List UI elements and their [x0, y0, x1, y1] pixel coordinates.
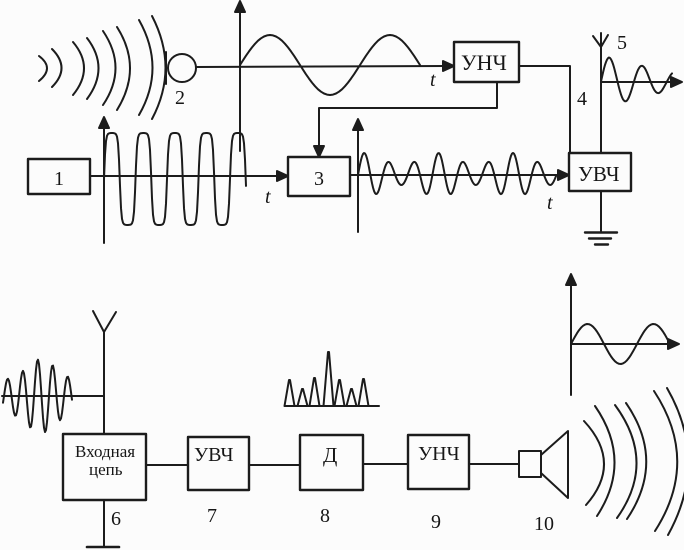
svg-text:7: 7	[207, 505, 217, 527]
arrowhead into modulator 3	[314, 146, 324, 157]
wire UNCh to speaker	[469, 463, 519, 465]
svg-text:t: t	[265, 186, 271, 208]
carrier axis arrowhead	[99, 117, 109, 128]
speaker driver square 10	[519, 451, 541, 477]
received AM waveform	[3, 360, 72, 432]
svg-text:УВЧ: УВЧ	[194, 444, 234, 466]
svg-text:3: 3	[314, 168, 324, 190]
receiver antenna mast	[103, 332, 105, 433]
radiated wave axis	[601, 81, 675, 83]
svg-text:УНЧ: УНЧ	[461, 50, 507, 75]
wire microphone to UNCh	[196, 66, 446, 67]
svg-text:t: t	[430, 69, 436, 91]
sound waves into microphone	[39, 16, 166, 119]
svg-text:5: 5	[617, 32, 627, 54]
radiated axis arrowhead	[671, 77, 682, 87]
detected signal baseline	[285, 405, 379, 407]
carrier waveform	[104, 133, 246, 225]
svg-text:Д: Д	[323, 443, 337, 467]
modulated graph vertical axis	[357, 126, 359, 232]
svg-text:4: 4	[577, 88, 587, 110]
ground transmitter	[585, 233, 617, 245]
svg-text:6: 6	[111, 508, 121, 530]
svg-text:9: 9	[431, 511, 441, 533]
wire input circuit to UVCh receiver	[146, 464, 188, 466]
svg-text:1: 1	[54, 168, 64, 190]
block UVCh transmitter U2	[569, 153, 631, 191]
svg-text:2: 2	[175, 87, 185, 109]
block input circuit 6	[63, 434, 146, 500]
svg-text:цепь: цепь	[89, 460, 123, 479]
svg-text:УНЧ: УНЧ	[418, 443, 460, 465]
receiver antenna V	[93, 311, 116, 332]
wire UVCh to ground	[600, 192, 602, 231]
wire detector to UNCh receiver	[363, 463, 408, 465]
modulated AM waveform	[358, 153, 556, 194]
svg-text:8: 8	[320, 505, 330, 527]
microphone diaphragm line	[165, 52, 167, 84]
detected signal spikes	[285, 352, 369, 406]
block generator 1	[28, 159, 90, 194]
arrowhead into modulator left	[277, 171, 288, 181]
output sine waveform	[571, 324, 669, 364]
wire modulator to UVCh (axis)	[350, 174, 564, 176]
block UVCh receiver 7	[188, 437, 249, 490]
output graph horizontal axis	[571, 343, 672, 345]
wire UVCh to detector	[249, 464, 300, 466]
audio sine waveform	[240, 35, 420, 95]
block UNCh transmitter U1	[454, 42, 519, 82]
speaker cone	[541, 431, 568, 498]
output graph vertical axis	[570, 281, 572, 395]
output axis right arrowhead	[668, 339, 679, 349]
transmitter antenna mast	[600, 47, 602, 153]
arrowhead into UVCh	[558, 170, 569, 180]
microphone 2	[168, 54, 196, 82]
wire UNCh to UVCh	[519, 66, 570, 153]
modulated axis arrowhead	[353, 119, 363, 130]
audio graph axis arrowhead	[235, 1, 245, 12]
radiated waveform	[601, 58, 672, 102]
block modulator 3	[288, 157, 350, 196]
audio graph vertical axis	[239, 8, 241, 151]
svg-text:t: t	[547, 192, 553, 214]
svg-text:УВЧ: УВЧ	[578, 162, 620, 186]
sound waves from speaker	[584, 388, 684, 535]
output axis up arrowhead	[566, 274, 576, 285]
transmitter antenna V	[593, 33, 608, 47]
arrowhead into UNCh	[443, 61, 454, 71]
received wave axis	[2, 395, 104, 397]
ground receiver	[87, 546, 119, 549]
carrier graph vertical axis	[103, 124, 105, 243]
svg-text:Входная: Входная	[75, 442, 135, 461]
block UNCh receiver 9	[408, 435, 469, 489]
svg-text:10: 10	[534, 513, 554, 535]
wire input circuit to ground	[103, 500, 105, 546]
feedback wire UNCh to modulator 3	[319, 82, 497, 150]
wire generator to modulator	[90, 175, 280, 177]
block detector D 8	[300, 435, 363, 490]
